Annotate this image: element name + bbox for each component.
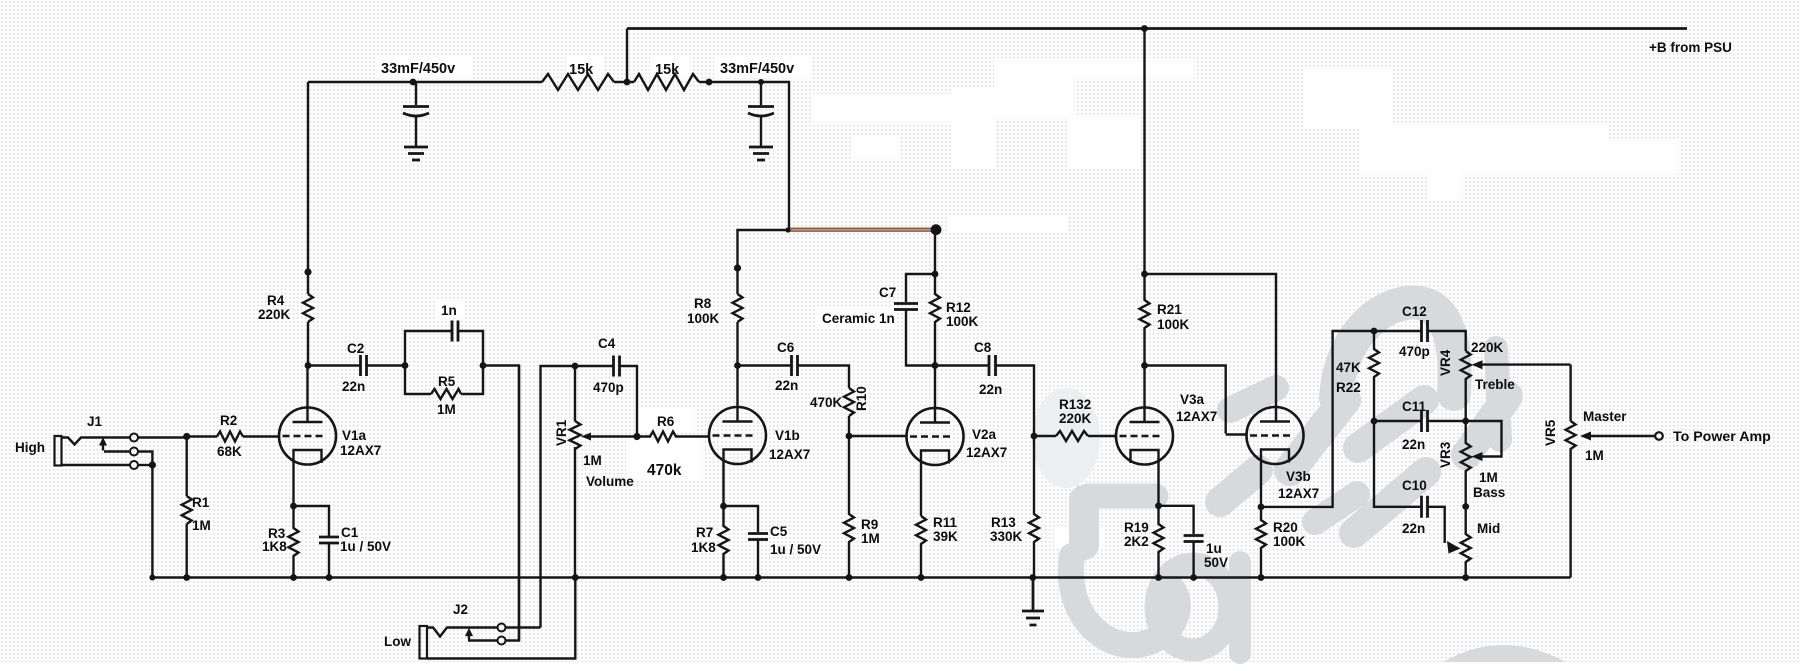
potentiometer VR4 220K Treble track <box>1461 351 1471 421</box>
svg-text:1K8: 1K8 <box>262 539 287 554</box>
resistor 15k (second) <box>634 74 699 90</box>
svg-text:12AX7: 12AX7 <box>769 447 810 462</box>
resistor R2 68K <box>217 432 243 442</box>
svg-text:VR1: VR1 <box>554 419 569 446</box>
svg-text:Treble: Treble <box>1475 377 1515 392</box>
triode V3b cathode <box>1261 450 1289 507</box>
wire: VR3 wiper loop <box>1466 421 1502 457</box>
svg-text:R9: R9 <box>861 517 878 532</box>
junction: 1u cap at ground rail <box>1190 574 1197 581</box>
capacitor C7 Ceramic 1n plates <box>894 304 918 310</box>
junction: ground rail left end <box>149 575 155 581</box>
capacitor C2 22n plates <box>361 355 367 376</box>
jack J1 tip terminal <box>130 434 138 442</box>
jack J1 ring terminal <box>130 448 138 456</box>
wire: R8 top to brown feed corner <box>738 230 789 294</box>
triode V2a envelope <box>907 408 964 465</box>
resistor R3 1K8 <box>289 506 299 578</box>
capacitor C5 plates <box>748 534 768 540</box>
svg-text:Bass: Bass <box>1473 485 1505 500</box>
svg-text:12AX7: 12AX7 <box>1176 409 1217 424</box>
svg-text:39K: 39K <box>933 529 958 544</box>
svg-text:VR5: VR5 <box>1543 419 1558 446</box>
svg-text:J1: J1 <box>87 414 103 429</box>
junction: R9 at ground rail <box>846 574 853 581</box>
triode V1a grid <box>283 435 323 437</box>
ground (below rail at R13) <box>1022 578 1044 626</box>
svg-text:22n: 22n <box>979 382 1002 397</box>
wire: V1b cathode node to C5 <box>724 506 759 532</box>
svg-text:22n: 22n <box>775 378 798 393</box>
svg-text:R7: R7 <box>696 525 713 540</box>
svg-text:15k: 15k <box>569 62 594 78</box>
svg-text:R21: R21 <box>1157 302 1182 317</box>
ground rail <box>152 576 1570 578</box>
triode V1b cathode <box>724 450 752 507</box>
svg-text:1K8: 1K8 <box>691 540 716 555</box>
resistor R19 2K2 <box>1154 506 1164 578</box>
wire: R2 to V1a grid <box>243 435 279 437</box>
junction: C7/R12 top <box>932 271 939 278</box>
wiper arrowhead VR5 <box>1580 432 1591 441</box>
svg-text:1M: 1M <box>583 453 602 468</box>
wire: J1 ring to sleeve junction <box>138 452 152 466</box>
svg-text:R11: R11 <box>933 515 958 530</box>
wire: V1a cathode node to C1 <box>294 506 330 536</box>
triode V3b plate <box>1260 420 1290 422</box>
wire: J1 ground drop to rail <box>151 465 153 578</box>
svg-text:22n: 22n <box>342 379 365 394</box>
wire: V3b cathode to tone stack riser <box>1261 331 1374 507</box>
junction: second 33mF cap at B+ rail <box>758 79 764 85</box>
jack J2 tip contact <box>427 628 498 637</box>
triode V3a cathode (lead on right) <box>1131 450 1159 506</box>
wire: C6 from V1b plate node <box>738 364 792 366</box>
junction: V2a plate node <box>932 362 939 369</box>
junction: second 15k to cap node <box>706 79 713 86</box>
wire: R1 bottom to rail <box>185 524 187 578</box>
resistor R8 100K <box>733 294 743 322</box>
svg-text:V3a: V3a <box>1180 392 1205 407</box>
svg-text:C10: C10 <box>1402 478 1427 493</box>
svg-text:C8: C8 <box>974 340 992 355</box>
wire: left B+ drop to R4 <box>307 82 309 294</box>
jack J1 sleeve bar <box>55 436 62 466</box>
wire: V2a grid from node <box>849 435 907 437</box>
junction: R3 at ground rail <box>290 574 297 581</box>
svg-text:1M: 1M <box>1585 448 1604 463</box>
wire: second B+ rail left segment <box>308 81 542 83</box>
svg-text:R1: R1 <box>192 495 210 510</box>
wiper arrowhead VR3 <box>1472 452 1483 461</box>
svg-text:R13: R13 <box>991 515 1016 530</box>
capacitor C4 470p plates <box>614 356 620 377</box>
wire: C7 branch top <box>906 274 935 302</box>
capacitor C12 470p plates <box>1422 320 1428 342</box>
capacitor C8 22n plates <box>989 355 996 376</box>
triode V1a envelope <box>279 408 336 465</box>
potentiometer Mid track <box>1461 507 1471 578</box>
svg-text:12AX7: 12AX7 <box>340 443 381 458</box>
wire: J2 tip riser to VR1 top <box>541 366 576 628</box>
wire: R10 bottom to V2a grid node <box>848 416 850 436</box>
jack J1 sleeve terminal <box>130 461 138 469</box>
svg-text:100K: 100K <box>946 314 979 329</box>
svg-text:R20: R20 <box>1273 520 1298 535</box>
wire: brown feed wire <box>788 228 936 232</box>
wire: treble wiper to VR5 top <box>1569 365 1571 421</box>
wire: C10 right to Mid wiper <box>1428 507 1445 543</box>
junction: J1 tip / R1 / R2 <box>183 433 190 440</box>
svg-text:1u: 1u <box>1206 541 1222 556</box>
potentiometer VR5 1M Master track <box>1566 421 1576 578</box>
svg-text:C12: C12 <box>1402 304 1427 319</box>
junction: C5 at ground rail <box>755 574 762 581</box>
wire: R22/C11 node down to C10 <box>1374 421 1422 507</box>
capacitor C1 plates <box>319 537 339 543</box>
wire: R132 row from C8 node <box>1034 435 1056 437</box>
junction: C1 at ground rail <box>326 574 333 581</box>
wire: C4 right to R6 node <box>620 366 638 437</box>
svg-text:330K: 330K <box>990 529 1023 544</box>
wire: top rail drop to R21 <box>1143 29 1145 275</box>
svg-text:R5: R5 <box>438 374 456 389</box>
svg-text:R19: R19 <box>1124 520 1149 535</box>
resistor R10 470K <box>844 388 854 416</box>
potentiometer VR4 wiper arrow <box>1479 363 1571 365</box>
svg-text:Ceramic 1n: Ceramic 1n <box>822 311 895 326</box>
triode V1a plate <box>293 366 323 423</box>
triode V1b grid <box>713 434 753 436</box>
svg-text:33mF/450v: 33mF/450v <box>381 61 455 77</box>
svg-text:47K: 47K <box>1336 360 1361 375</box>
triode V1a cathode <box>294 450 322 506</box>
svg-text:V1a: V1a <box>342 428 367 443</box>
junction: VR1/J2 sleeve at ground rail <box>572 574 579 581</box>
wiper arrowhead Mid <box>1447 541 1461 554</box>
triode V3a plate <box>1130 366 1160 423</box>
resistor R11 39K <box>916 516 926 578</box>
junction: C2 to R5 network <box>402 362 409 369</box>
wire: J2 tip circle to riser <box>506 626 541 628</box>
junction: R13/ground symbol at rail <box>1029 574 1036 581</box>
wire: C5 bottom to rail <box>757 540 759 578</box>
svg-text:2K2: 2K2 <box>1124 534 1149 549</box>
wire: 1u cap bottom to rail <box>1192 542 1194 578</box>
svg-text:1M: 1M <box>1479 470 1498 485</box>
resistor R1 1M <box>182 496 192 524</box>
junction: R5 network output <box>480 362 487 369</box>
svg-text:68K: 68K <box>217 444 242 459</box>
junction: V1b plate node <box>734 362 741 369</box>
junction: V1a cathode / R3 / C1 <box>290 503 297 510</box>
svg-text:V3b: V3b <box>1286 469 1311 484</box>
svg-text:470p: 470p <box>593 380 624 395</box>
junction: R10 / R9 / V2a grid <box>846 433 853 440</box>
svg-text:Low: Low <box>384 634 411 649</box>
svg-text:C2: C2 <box>347 341 364 356</box>
jack J2 ring contact <box>468 366 519 641</box>
jack J2 tip terminal <box>498 624 506 632</box>
svg-text:R4: R4 <box>267 293 285 308</box>
wire: R5 loop bottom branch <box>405 366 483 395</box>
resistor R22 47K <box>1369 331 1379 421</box>
wiper arrowhead VR1 <box>581 433 591 441</box>
wire: V3a plate node to V3b grid <box>1145 366 1247 435</box>
junction: Mid pot at ground rail <box>1462 574 1469 581</box>
capacitor 1u 50V plates <box>1184 536 1204 542</box>
svg-text:470K: 470K <box>810 395 843 410</box>
wire: R1 top <box>185 437 187 497</box>
junction: V1b cathode / R7 / C5 <box>720 503 727 510</box>
triode V3a envelope <box>1116 408 1173 465</box>
svg-text:Volume: Volume <box>586 474 634 489</box>
junction: R7 at ground rail <box>720 574 727 581</box>
svg-text:12AX7: 12AX7 <box>1278 486 1319 501</box>
resistor 15k (first) <box>542 74 614 90</box>
svg-text:1n: 1n <box>441 303 457 318</box>
svg-text:100K: 100K <box>1157 317 1190 332</box>
wire: R4 bottom to plate node <box>307 322 309 366</box>
svg-text:1M: 1M <box>861 531 880 546</box>
resistor R9 1M <box>844 436 854 578</box>
junction: VR3 bottom / Mid pot top <box>1462 503 1469 510</box>
svg-text:J2: J2 <box>453 602 468 617</box>
junction: R21 top / V3b plate wire <box>1141 271 1148 278</box>
wire: J1 sleeve circle to junction <box>138 464 152 466</box>
junction: C4 drop / R6 / VR1 wiper <box>633 433 640 440</box>
svg-text:100K: 100K <box>687 311 720 326</box>
resistor R13 330K <box>1029 436 1039 578</box>
svg-text:To Power Amp: To Power Amp <box>1673 429 1771 445</box>
wire: fat node down to C7/R12 top <box>934 230 936 274</box>
junction: first 33mF cap at B+ rail <box>410 79 417 86</box>
terminal: To Power Amp <box>1655 432 1663 440</box>
potentiometer VR1 wiper arrow <box>588 435 637 437</box>
capacitor 33mF/450v (second) leads <box>760 82 762 146</box>
wire: R5/1n parallel loop top branch <box>405 331 483 366</box>
wire: C11 row <box>1374 420 1466 422</box>
triode V3b envelope <box>1247 407 1304 464</box>
junction: B+ drop to brown wire <box>785 227 790 232</box>
junction: R8 feed wire <box>734 264 741 271</box>
triode V2a grid <box>910 435 950 437</box>
capacitor C10 22n plates <box>1422 496 1428 518</box>
svg-text:V1b: V1b <box>775 428 800 443</box>
wire: C2 to R5 network <box>367 364 406 366</box>
svg-text:High: High <box>15 440 45 455</box>
wire: stack top to C12 <box>1374 330 1422 332</box>
triode V2a cathode <box>921 451 949 517</box>
resistor R7 1K8 <box>719 506 729 578</box>
wire: V1b plate node up to feed corner <box>736 322 738 366</box>
resistor R6 470k <box>637 432 679 442</box>
capacitor 33mF/450v (first) leads <box>415 82 417 146</box>
ground (below first 33mF) <box>404 147 428 160</box>
jack J1 ring contact <box>104 450 130 452</box>
svg-text:470p: 470p <box>1399 344 1430 359</box>
svg-text:C7: C7 <box>879 285 896 300</box>
junction: stack top / R22 / C12 <box>1371 328 1378 335</box>
junction: VR1 top / C4 <box>572 363 579 370</box>
potentiometer VR1 1M Volume track <box>570 366 581 578</box>
wire: C7 branch bottom <box>906 310 935 366</box>
svg-text:470k: 470k <box>647 462 682 479</box>
wire: C12 to VR4 top corner <box>1428 331 1466 351</box>
svg-text:100K: 100K <box>1273 534 1306 549</box>
svg-text:22n: 22n <box>1402 437 1425 452</box>
svg-text:VR4: VR4 <box>1438 349 1453 376</box>
junction: C8 drop / R13 / R132 <box>1031 433 1038 440</box>
wire: C6 to R10 corner <box>798 366 850 389</box>
junction: VR4 bottom / C11 / VR3 <box>1462 418 1469 425</box>
junction: R11 at ground rail <box>918 574 925 581</box>
ground (below second 33mF) <box>749 147 773 160</box>
svg-text:33mF/450v: 33mF/450v <box>720 61 794 77</box>
svg-text:C6: C6 <box>777 340 795 355</box>
junction: R22 bottom / C11 / C10 drop <box>1371 418 1378 425</box>
wire: R6 to V1b grid <box>679 435 709 437</box>
wire: plate node to C2 <box>308 364 360 366</box>
junction: V1a plate node <box>305 362 312 369</box>
svg-text:R132: R132 <box>1059 397 1091 412</box>
junction: V3a plate node <box>1141 362 1148 369</box>
wire: R19 node to 1u cap <box>1159 506 1194 534</box>
svg-text:1u / 50V: 1u / 50V <box>770 542 821 557</box>
watermark gray glyphs <box>1032 303 1566 662</box>
svg-text:C4: C4 <box>598 336 616 351</box>
triode V2a plate <box>920 366 950 423</box>
svg-text:R10: R10 <box>854 386 869 411</box>
svg-text:220K: 220K <box>1471 340 1504 355</box>
svg-text:220K: 220K <box>258 307 291 322</box>
svg-text:22n: 22n <box>1402 521 1425 536</box>
junction: top rail to R21 drop <box>1141 25 1148 32</box>
wire: J1 tip to R2 <box>138 437 217 438</box>
svg-text:V2a: V2a <box>972 427 997 442</box>
junction: R4 top feed <box>304 268 311 275</box>
capacitor 1n plates <box>452 321 458 342</box>
jack J2 sleeve line to ground riser <box>427 578 575 659</box>
junction: J1 ring-sleeve ground <box>149 461 156 468</box>
junction: R1 at ground rail <box>183 574 190 581</box>
triode V3a grid <box>1120 435 1160 437</box>
jack J2 ring terminal <box>498 637 506 645</box>
wire: second rail right segment to corner <box>699 82 789 230</box>
svg-text:Master: Master <box>1583 409 1627 424</box>
wire: R132 to V3a grid <box>1088 435 1116 437</box>
svg-text:C1: C1 <box>341 525 359 540</box>
wiper arrowhead VR4 <box>1472 360 1483 369</box>
node: R12 top fat junction <box>931 224 942 235</box>
svg-text:R22: R22 <box>1336 380 1361 395</box>
svg-text:15k: 15k <box>655 62 680 78</box>
potentiometer VR3 1M Bass track <box>1461 421 1471 507</box>
wire: R5 network output to J2 drop <box>483 366 519 641</box>
svg-text:R2: R2 <box>220 413 237 428</box>
svg-text:R12: R12 <box>946 300 971 315</box>
svg-text:50V: 50V <box>1204 555 1228 570</box>
wire: R21 top to V3b plate <box>1145 274 1277 422</box>
junction: R19 at ground rail <box>1155 574 1162 581</box>
resistor R20 100K <box>1256 507 1266 578</box>
triode V1b envelope <box>709 407 766 464</box>
jack J1 switch arrow <box>102 443 104 451</box>
capacitor 33mF/450v (second) plates <box>748 105 774 108</box>
svg-text:R6: R6 <box>657 414 675 429</box>
capacitor C6 22n plates <box>792 355 798 376</box>
junction: V3a cathode / R19 / 1u cap <box>1155 502 1162 509</box>
wire: top B+ rail <box>627 27 1687 30</box>
wire: C8 to R13 corner <box>996 366 1035 437</box>
svg-text:12AX7: 12AX7 <box>966 445 1007 460</box>
svg-text:1M: 1M <box>192 518 211 533</box>
resistor R132 220K <box>1056 431 1088 441</box>
junction: R20 at ground rail <box>1258 574 1265 581</box>
svg-text:220K: 220K <box>1059 411 1092 426</box>
svg-text:VR3: VR3 <box>1438 441 1453 468</box>
resistor R21 100K <box>1140 274 1150 366</box>
wire: between 15k resistors <box>614 81 634 83</box>
jack J2 sleeve bar <box>420 626 428 659</box>
svg-text:1M: 1M <box>437 402 456 417</box>
svg-text:C11: C11 <box>1402 399 1427 414</box>
triode V3b grid <box>1250 434 1290 436</box>
wire: riser between 15k resistors to top rail <box>626 29 628 83</box>
capacitor C11 22n plates <box>1422 410 1428 432</box>
resistor R5 1M <box>431 389 461 399</box>
capacitor 33mF/450v (first) plates <box>403 105 429 108</box>
wire: C1 bottom to rail <box>328 543 330 578</box>
triode V1b plate <box>723 366 753 422</box>
junction: V3b cathode / R20 / stack feed <box>1258 504 1265 511</box>
jack J1 tip contact <box>62 438 131 445</box>
svg-text:+B from PSU: +B from PSU <box>1649 40 1732 55</box>
resistor R12 100K <box>930 274 940 366</box>
wire: C8 from V2a plate node <box>935 364 989 366</box>
svg-text:Mid: Mid <box>1477 521 1500 536</box>
wire: VR1 top node to C4 <box>575 365 614 367</box>
jack J2 switch arrow <box>468 633 470 640</box>
junction: riser between 15k resistors <box>624 79 631 86</box>
svg-text:R8: R8 <box>694 296 712 311</box>
potentiometer VR5 wiper arrow <box>1588 435 1655 437</box>
svg-text:C5: C5 <box>770 524 788 539</box>
jack J1 sleeve line <box>62 464 131 466</box>
svg-text:1u / 50V: 1u / 50V <box>340 539 391 554</box>
resistor R4 220K <box>303 294 313 322</box>
